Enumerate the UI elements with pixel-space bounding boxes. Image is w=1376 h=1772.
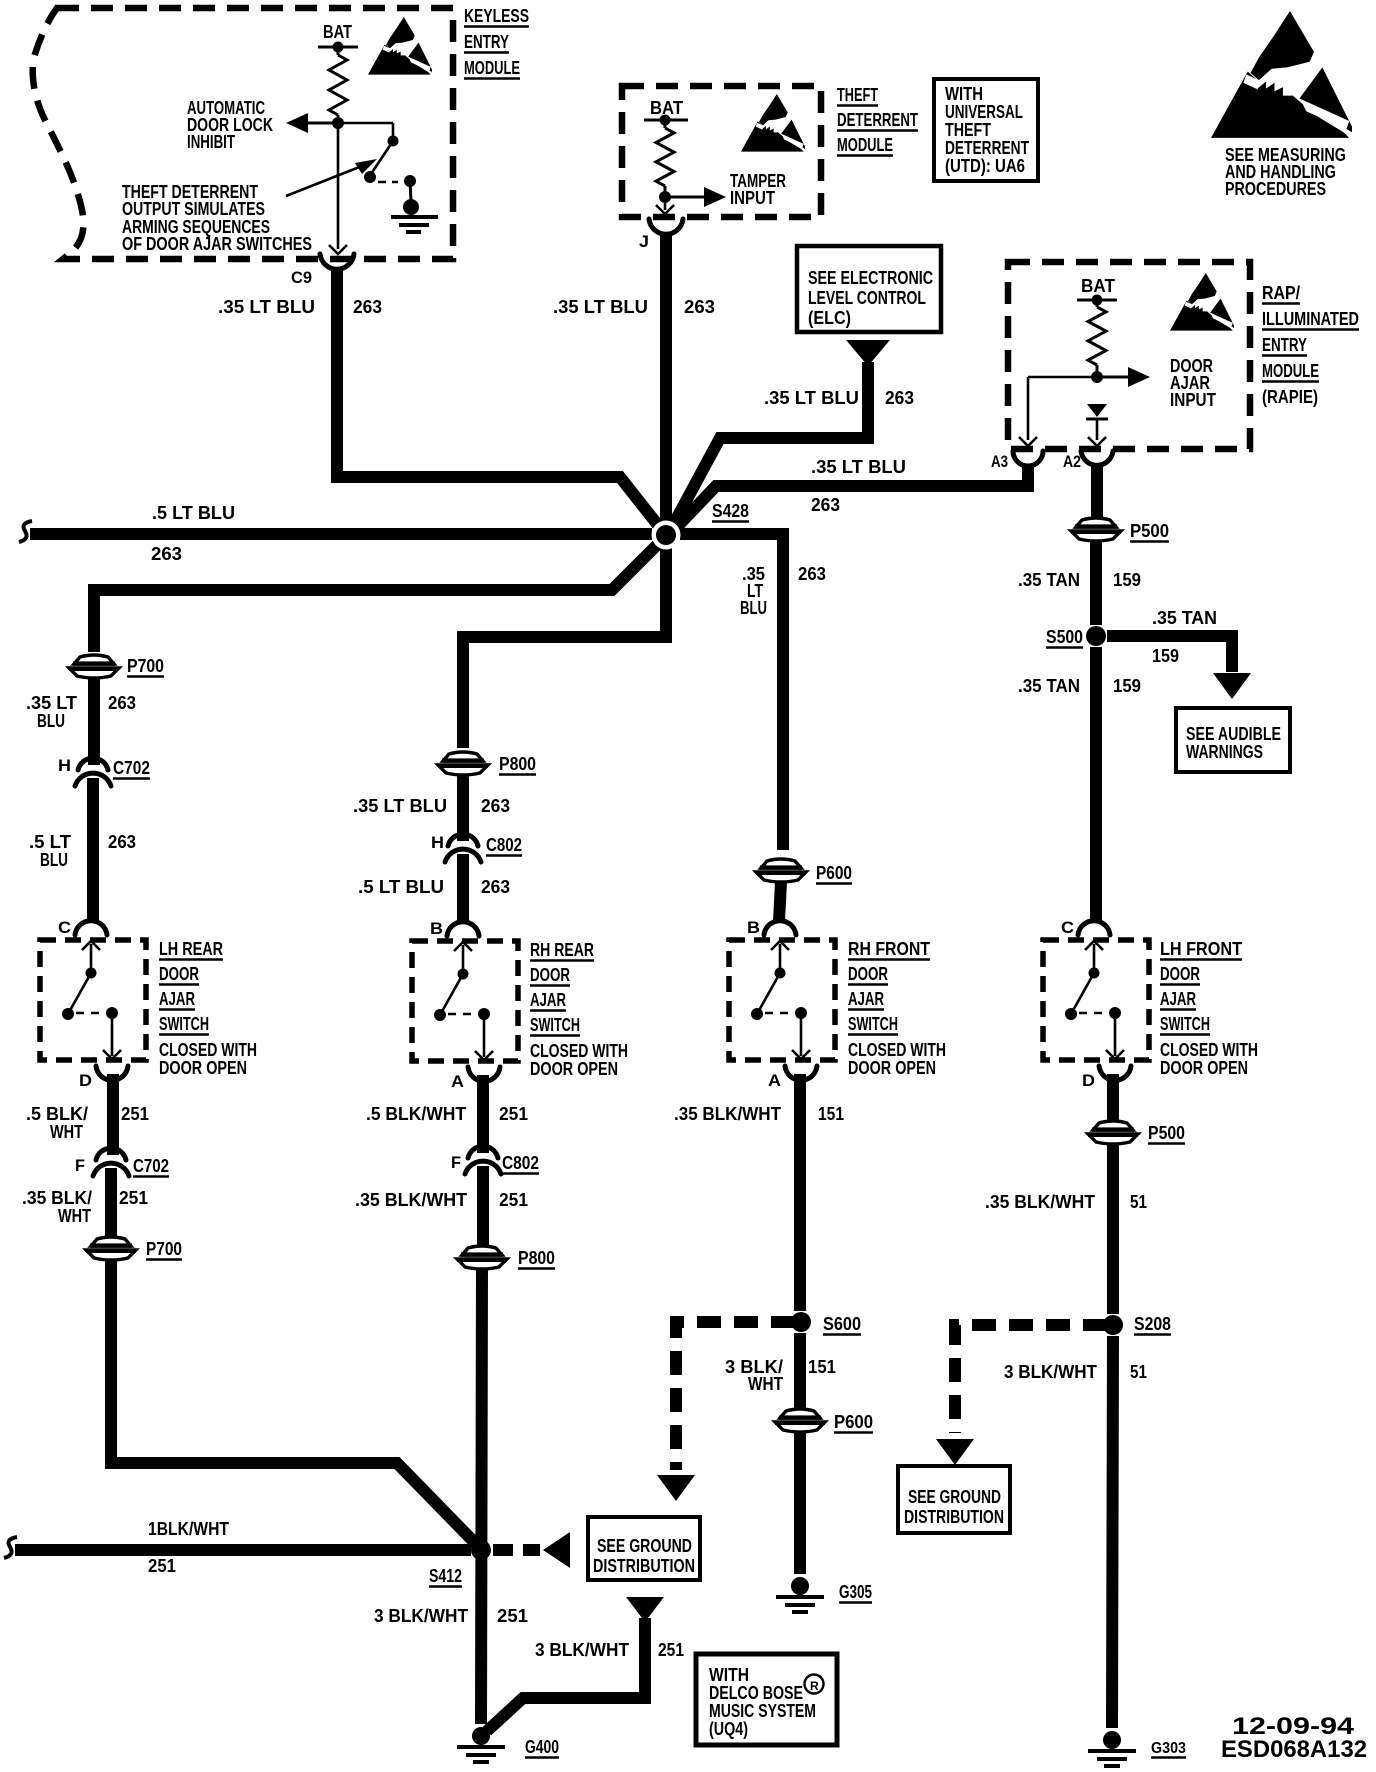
wire RH front switch to S600 circuit 151 [794, 1074, 806, 1311]
with delco bose music system note box [696, 1654, 837, 1745]
RH rear switch blade [440, 974, 463, 1015]
svg-text:263: 263 [353, 297, 382, 317]
svg-text:WHT: WHT [50, 1122, 83, 1142]
RAPIE branch to A3 [1028, 376, 1097, 379]
off-page arrow to see ground distribution [543, 1532, 570, 1568]
ESD symbol theft module [741, 94, 805, 152]
svg-text:263: 263 [481, 796, 510, 816]
svg-text:.5 LT BLU: .5 LT BLU [152, 503, 235, 523]
svg-text:SEE AUDIBLE: SEE AUDIBLE [1186, 724, 1281, 744]
svg-text:H: H [431, 833, 444, 852]
svg-text:WHT: WHT [58, 1206, 91, 1226]
svg-text:S500: S500 [1046, 627, 1083, 647]
svg-text:DETERRENT: DETERRENT [945, 138, 1029, 158]
node RAPIE junction [1091, 371, 1103, 383]
wire P600 to G305 [794, 1432, 806, 1574]
svg-text:OUTPUT SIMULATES: OUTPUT SIMULATES [122, 199, 265, 219]
svg-text:DOOR OPEN: DOOR OPEN [530, 1059, 618, 1079]
svg-text:P800: P800 [499, 754, 536, 774]
svg-text:DOOR: DOOR [530, 965, 570, 985]
wire S428 to P700 branch [94, 541, 661, 652]
svg-text:RH FRONT: RH FRONT [848, 939, 930, 959]
svg-text:BAT: BAT [1081, 276, 1115, 296]
svg-text:INHIBIT: INHIBIT [187, 132, 235, 152]
connector P800 upper [443, 752, 483, 761]
svg-text:SWITCH: SWITCH [1160, 1014, 1210, 1034]
wire A2 to P500 circuit 159 [1091, 464, 1103, 517]
arrow to automatic door lock inhibit [308, 122, 338, 125]
svg-text:SEE ELECTRONIC: SEE ELECTRONIC [808, 268, 933, 288]
svg-text:159: 159 [1113, 676, 1141, 696]
wire to C802 circuit 263 [457, 775, 469, 841]
wire triangle to G400 circuit 251 [487, 1618, 645, 1731]
connector P500 upper [1076, 518, 1116, 527]
wire C702 to P700 circuit 251 [105, 1168, 117, 1237]
svg-text:.35 LT BLU: .35 LT BLU [553, 297, 648, 317]
svg-text:P800: P800 [518, 1248, 555, 1268]
connector P500 lower [1093, 1121, 1133, 1130]
svg-text:RAP/: RAP/ [1262, 283, 1300, 303]
wire RH rear switch to C802 circuit 251 [477, 1075, 489, 1153]
keyless switch blade [371, 141, 393, 174]
svg-text:251: 251 [497, 1606, 528, 1626]
LH rear switch top contact arrow [90, 944, 93, 973]
off-page triangle audible warnings [1213, 673, 1251, 699]
svg-text:THEFT: THEFT [837, 85, 878, 105]
keyless switch branch wire [338, 122, 393, 125]
svg-text:(UTD): UA6: (UTD): UA6 [945, 156, 1025, 176]
svg-text:.35 TAN: .35 TAN [1152, 608, 1217, 628]
svg-text:B: B [747, 918, 760, 937]
ground G400 [472, 1727, 490, 1745]
svg-text:D: D [1082, 1071, 1095, 1090]
svg-text:R: R [810, 1679, 819, 1693]
LH front door ajar switch box [1043, 940, 1149, 1060]
connector P800 lower [462, 1246, 502, 1255]
svg-text:BLU: BLU [37, 711, 65, 731]
svg-text:AJAR: AJAR [530, 990, 566, 1010]
see ground distribution note box upper [898, 1466, 1010, 1533]
svg-text:C702: C702 [113, 758, 150, 778]
pointer arrow to switch [286, 164, 367, 196]
svg-text:CLOSED WITH: CLOSED WITH [1160, 1040, 1258, 1060]
svg-text:F: F [451, 1153, 461, 1172]
off-page triangle to G400 wire [626, 1597, 664, 1622]
RH front switch pivot [775, 968, 786, 979]
svg-text:RH REAR: RH REAR [530, 940, 594, 960]
RAP illuminated entry module box [1008, 262, 1250, 449]
svg-text:C702: C702 [133, 1156, 169, 1176]
svg-text:3 BLK/WHT: 3 BLK/WHT [374, 1606, 468, 1626]
RH front door ajar switch box [729, 940, 835, 1060]
keyless output line to C9 [337, 123, 340, 249]
LH front switch blade [1071, 973, 1094, 1014]
svg-text:.35 LT BLU: .35 LT BLU [764, 388, 859, 408]
svg-text:C9: C9 [291, 268, 312, 287]
connector P600 upper [761, 859, 801, 868]
svg-text:51: 51 [1130, 1362, 1147, 1382]
svg-text:C: C [58, 918, 71, 937]
svg-text:AJAR: AJAR [159, 989, 195, 1009]
svg-text:H: H [58, 756, 71, 775]
svg-text:251: 251 [119, 1188, 148, 1208]
svg-text:WHT: WHT [748, 1374, 783, 1394]
svg-text:F: F [75, 1156, 85, 1175]
svg-text:.35 TAN: .35 TAN [1018, 676, 1080, 696]
svg-text:.35 TAN: .35 TAN [1018, 570, 1080, 590]
keyless switch dashed link [378, 181, 398, 184]
svg-text:263: 263 [481, 877, 510, 897]
wire S428 to RH front branch [680, 534, 783, 850]
svg-text:251: 251 [499, 1190, 528, 1210]
svg-text:SWITCH: SWITCH [848, 1014, 898, 1034]
svg-text:ILLUMINATED: ILLUMINATED [1262, 309, 1359, 329]
wire C802 to P800 circuit 251 [477, 1166, 489, 1246]
node theft junction [659, 191, 671, 203]
RH front switch blade [757, 973, 780, 1014]
svg-text:C: C [1061, 918, 1074, 937]
svg-text:MUSIC SYSTEM: MUSIC SYSTEM [709, 1701, 816, 1721]
wire 1 BLK/WHT from left circuit 251 [4, 1537, 17, 1558]
keyless internal ground [410, 181, 411, 201]
svg-text:WITH: WITH [945, 84, 983, 104]
svg-text:S428: S428 [712, 501, 749, 521]
svg-text:DELCO BOSE: DELCO BOSE [709, 1683, 803, 1703]
svg-text:263: 263 [108, 832, 136, 852]
RH rear door ajar switch box [412, 941, 518, 1061]
svg-text:A: A [768, 1071, 781, 1090]
svg-text:BAT: BAT [323, 22, 352, 42]
resistor theft [664, 120, 667, 128]
svg-text:INPUT: INPUT [1170, 390, 1216, 410]
ESD symbol RAPIE module [1170, 273, 1234, 331]
svg-text:159: 159 [1113, 570, 1141, 590]
svg-text:OF DOOR AJAR SWITCHES: OF DOOR AJAR SWITCHES [122, 234, 312, 254]
connector P700 upper [74, 655, 114, 664]
svg-text:DOOR: DOOR [848, 964, 888, 984]
wire S428 to P800 branch [463, 543, 666, 748]
splice S600 [791, 1312, 811, 1332]
see audible warnings note box [1176, 708, 1290, 772]
svg-text:.35 BLK/WHT: .35 BLK/WHT [355, 1190, 467, 1210]
svg-text:251: 251 [499, 1104, 528, 1124]
wire J to S428 circuit 263 [660, 235, 672, 527]
ESD symbol keyless module [368, 17, 432, 75]
splice S500 [1086, 626, 1106, 646]
RH rear switch bottom contact arrow [483, 1014, 486, 1057]
svg-text:INPUT: INPUT [730, 188, 775, 208]
svg-text:(RAPIE): (RAPIE) [1262, 387, 1318, 407]
svg-text:.5 LT BLU: .5 LT BLU [358, 877, 444, 897]
ground G303 [1103, 1731, 1121, 1749]
RH rear switch dashed link [448, 1013, 474, 1016]
svg-text:P600: P600 [816, 863, 852, 883]
svg-text:263: 263 [151, 544, 182, 564]
LH rear switch pivot [86, 968, 97, 979]
svg-text:DOOR OPEN: DOOR OPEN [1160, 1058, 1248, 1078]
svg-text:AJAR: AJAR [1160, 989, 1196, 1009]
svg-text:151: 151 [808, 1357, 836, 1377]
svg-text:MODULE: MODULE [1262, 361, 1319, 381]
svg-text:.35 LT BLU: .35 LT BLU [811, 457, 906, 477]
svg-text:SWITCH: SWITCH [530, 1015, 580, 1035]
node keyless junction [332, 117, 344, 129]
resistor keyless [337, 47, 340, 55]
off-page triangle S600 branch [657, 1475, 695, 1501]
svg-text:SEE GROUND: SEE GROUND [908, 1487, 1001, 1507]
RH front switch dashed link [765, 1012, 791, 1015]
RH front switch bottom contact arrow [800, 1013, 803, 1056]
svg-text:S208: S208 [1134, 1314, 1171, 1334]
svg-text:G305: G305 [839, 1582, 872, 1602]
svg-text:.35 BLK/: .35 BLK/ [22, 1188, 92, 1208]
wire S500 to audible warnings circuit 159 [1107, 636, 1232, 672]
svg-text:P500: P500 [1148, 1123, 1185, 1143]
ESD symbol see measuring and handling [1211, 11, 1352, 138]
svg-text:KEYLESS: KEYLESS [464, 6, 529, 26]
svg-text:3 BLK/WHT: 3 BLK/WHT [535, 1640, 629, 1660]
svg-text:.5 LT: .5 LT [29, 832, 71, 852]
diode RAPIE [1087, 404, 1107, 417]
svg-text:SEE GROUND: SEE GROUND [597, 1536, 692, 1556]
theft deterrent module box [622, 86, 821, 217]
svg-text:1BLK/WHT: 1BLK/WHT [148, 1519, 229, 1539]
svg-text:ENTRY: ENTRY [464, 32, 509, 52]
svg-text:MODULE: MODULE [464, 58, 520, 78]
svg-text:THEFT: THEFT [945, 120, 991, 140]
wire ELC to S428 circuit 263 [672, 362, 868, 527]
ground G305 [791, 1577, 809, 1595]
svg-text:A: A [451, 1072, 464, 1091]
tamper input arrow [665, 196, 706, 199]
see electronic level control note box [797, 246, 941, 332]
svg-text:DISTRIBUTION: DISTRIBUTION [593, 1556, 695, 1576]
LH rear switch blade [68, 973, 91, 1014]
svg-text:.35 LT BLU: .35 LT BLU [218, 297, 315, 317]
svg-text:263: 263 [885, 388, 914, 408]
svg-text:PROCEDURES: PROCEDURES [1225, 179, 1326, 199]
LH rear switch bottom contact arrow [111, 1013, 114, 1056]
wire P500 to S208 circuit 51 [1107, 1144, 1119, 1314]
wire LH front switch to P500 circuit 51 [1107, 1074, 1119, 1121]
RH rear switch pivot [458, 969, 469, 980]
LH rear door ajar switch box [40, 940, 146, 1060]
svg-text:DISTRIBUTION: DISTRIBUTION [904, 1507, 1004, 1527]
svg-text:.35 BLK/WHT: .35 BLK/WHT [985, 1192, 1095, 1212]
wire P800 to S412 and G400 [481, 1269, 482, 1724]
svg-text:D: D [79, 1071, 92, 1090]
svg-text:LH REAR: LH REAR [159, 939, 223, 959]
splice S412 [471, 1540, 491, 1560]
LH front switch pivot [1089, 968, 1100, 979]
wire .5 LT BLU from left circuit 263 [19, 521, 32, 542]
theft output line to J [664, 197, 667, 210]
svg-text:WARNINGS: WARNINGS [1186, 742, 1263, 762]
RH rear switch top contact arrow [462, 945, 465, 974]
svg-text:(ELC): (ELC) [808, 308, 851, 328]
svg-text:251: 251 [658, 1640, 684, 1660]
svg-text:DOOR: DOOR [1160, 964, 1200, 984]
connector P600 lower [780, 1409, 820, 1418]
wire P700 to S412 [111, 1260, 476, 1544]
off-page triangle S208 branch [936, 1439, 974, 1465]
svg-text:P700: P700 [146, 1239, 182, 1259]
door ajar input arrow [1097, 376, 1128, 379]
connector P700 lower [91, 1237, 131, 1246]
svg-text:SWITCH: SWITCH [159, 1014, 209, 1034]
svg-text:DOOR OPEN: DOOR OPEN [848, 1058, 936, 1078]
wire P600 to RH front switch [779, 882, 781, 921]
splice S428 [652, 521, 681, 550]
svg-text:P700: P700 [127, 656, 164, 676]
LH rear switch dashed link [76, 1012, 102, 1015]
svg-text:C802: C802 [502, 1153, 539, 1173]
svg-text:159: 159 [1152, 646, 1179, 666]
wire S600 to P600 circuit 151 [794, 1333, 806, 1408]
svg-text:.5 BLK/WHT: .5 BLK/WHT [366, 1104, 466, 1124]
wire S208 to G303 circuit 51 [1112, 1336, 1113, 1728]
dashed wire S600 to ground distribution [676, 1322, 795, 1470]
svg-text:S412: S412 [429, 1566, 462, 1586]
svg-text:CLOSED WITH: CLOSED WITH [159, 1040, 257, 1060]
svg-text:J: J [639, 232, 649, 251]
wire A3 to S428 circuit 263 [674, 466, 1028, 530]
wire to C702 circuit 263 [88, 678, 100, 765]
RH front switch top contact arrow [779, 944, 782, 973]
svg-text:ENTRY: ENTRY [1262, 335, 1307, 355]
wire C9 to S428 circuit 263 [331, 270, 343, 483]
svg-text:A3: A3 [991, 452, 1008, 471]
LH front switch dashed link [1079, 1012, 1105, 1015]
svg-text:DOOR: DOOR [159, 964, 199, 984]
svg-text:AJAR: AJAR [848, 989, 884, 1009]
svg-text:(UQ4): (UQ4) [709, 1719, 748, 1739]
wire P500 to S500 circuit 159 [1090, 541, 1102, 625]
svg-text:P500: P500 [1130, 521, 1169, 541]
svg-text:G400: G400 [525, 1737, 559, 1757]
svg-text:.35 LT: .35 LT [26, 693, 77, 713]
svg-text:263: 263 [108, 693, 136, 713]
svg-text:LEVEL CONTROL: LEVEL CONTROL [808, 288, 926, 308]
dashed wire S412 to ground distribution [493, 1544, 540, 1556]
svg-text:263: 263 [798, 564, 826, 584]
svg-text:MODULE: MODULE [837, 135, 893, 155]
svg-text:51: 51 [1130, 1192, 1147, 1212]
svg-text:WITH: WITH [709, 1665, 749, 1685]
svg-text:ESD068A132: ESD068A132 [1221, 1736, 1367, 1763]
wire LH rear switch to C702 circuit 251 [107, 1074, 119, 1155]
svg-text:LH FRONT: LH FRONT [1160, 939, 1242, 959]
svg-text:251: 251 [121, 1104, 149, 1124]
svg-text:DOOR OPEN: DOOR OPEN [159, 1058, 247, 1078]
see ground distribution note box lower [588, 1517, 700, 1580]
wire C802 to RH rear switch circuit 263 [457, 854, 469, 921]
svg-text:UNIVERSAL: UNIVERSAL [945, 102, 1023, 122]
with universal theft deterrent note box [934, 79, 1038, 181]
svg-text:251: 251 [148, 1556, 176, 1576]
wire S500 to LH front switch circuit 159 [1090, 647, 1102, 921]
wire C702 to LH rear switch circuit 263 [87, 778, 99, 921]
svg-text:B: B [430, 919, 443, 938]
svg-text:.35 BLK/WHT: .35 BLK/WHT [674, 1104, 781, 1124]
svg-text:C802: C802 [486, 835, 522, 855]
svg-text:BLU: BLU [740, 598, 767, 618]
splice S208 [1103, 1315, 1123, 1335]
svg-text:DETERRENT: DETERRENT [837, 110, 918, 130]
svg-text:263: 263 [811, 495, 840, 515]
off-page triangle from ELC [846, 340, 890, 366]
dashed wire S208 to ground distribution [955, 1325, 1107, 1433]
svg-text:263: 263 [684, 297, 715, 317]
LH front switch top contact arrow [1093, 944, 1096, 973]
resistor RAPIE [1096, 300, 1099, 307]
svg-text:G303: G303 [1151, 1740, 1186, 1757]
svg-text:A2: A2 [1063, 452, 1081, 471]
svg-text:CLOSED WITH: CLOSED WITH [530, 1041, 628, 1061]
svg-text:CLOSED WITH: CLOSED WITH [848, 1040, 946, 1060]
svg-text:S600: S600 [823, 1314, 861, 1334]
LH front switch bottom contact arrow [1114, 1013, 1117, 1056]
svg-text:P600: P600 [834, 1412, 873, 1432]
svg-text:151: 151 [818, 1104, 844, 1124]
svg-text:.5 BLK/: .5 BLK/ [26, 1104, 88, 1124]
svg-text:BLU: BLU [40, 850, 68, 870]
svg-text:3 BLK/WHT: 3 BLK/WHT [1004, 1362, 1097, 1382]
svg-text:.35 LT BLU: .35 LT BLU [353, 796, 447, 816]
keyless entry module box [33, 8, 453, 259]
